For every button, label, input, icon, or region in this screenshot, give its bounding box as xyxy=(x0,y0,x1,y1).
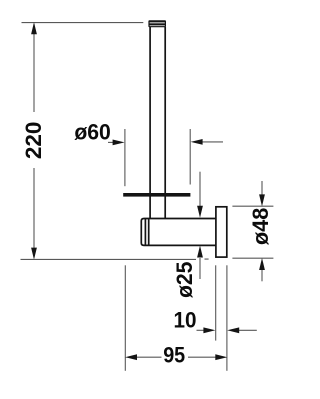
dim: top extension line (220 top reference) xyxy=(22,22,144,24)
dim: 95 dimension line right segment + arrow right xyxy=(188,356,217,358)
post: top end cap (banded) xyxy=(148,20,166,27)
svg-text:ø25: ø25 xyxy=(172,262,197,299)
svg-text:ø48: ø48 xyxy=(248,208,273,246)
dim: 220 vertical dimension line (gap for label) xyxy=(33,24,35,258)
dim: ø48 top dimension line + arrow down xyxy=(261,181,263,195)
dim: ø48 bottom extension line xyxy=(232,257,273,259)
dim: bottom reference line (wall/base level) xyxy=(21,258,209,260)
svg-text:10: 10 xyxy=(174,307,197,332)
dim: 95 dimension line left segment + arrow left xyxy=(135,356,162,358)
dim: 220 arrow up xyxy=(31,22,37,34)
dim: ø25 lower dimension line + arrow up to arm bottom xyxy=(199,258,201,279)
dim: ø48 bottom dimension line + arrow up xyxy=(261,270,263,281)
dim: ø48 top extension line xyxy=(232,205,273,207)
disc ø60 (roll rest, edge-on) xyxy=(123,193,190,197)
dim: 10 right leader + arrow left xyxy=(235,329,257,331)
dim: ø60 right leader + arrow left xyxy=(199,141,223,143)
dim: 95 left extension line (front of holder) xyxy=(124,265,126,371)
dim: ø25 upper dimension line + arrow down to arm top xyxy=(199,172,201,207)
arm ø25 (horizontal cylinder) xyxy=(141,219,216,246)
svg-text:220: 220 xyxy=(21,122,46,160)
svg-text:ø60: ø60 xyxy=(74,120,111,145)
post: vertical rod body xyxy=(150,27,165,219)
dim: 10/95 right extension line (plate back face / wall) xyxy=(226,265,228,371)
dim: 220 arrow down xyxy=(31,248,37,260)
dim: 10 left extension line (plate front face) xyxy=(215,265,217,340)
svg-text:95: 95 xyxy=(163,343,185,368)
dim: ø60 left extension line xyxy=(124,129,126,186)
arm: end-cap groove lines xyxy=(144,219,146,246)
dim: ø60 right extension line xyxy=(189,129,191,185)
wall plate ø48 xyxy=(216,207,227,257)
dim: ø60 left leader + arrow right xyxy=(108,141,116,143)
dim: 10 left leader + arrow right xyxy=(197,329,206,331)
